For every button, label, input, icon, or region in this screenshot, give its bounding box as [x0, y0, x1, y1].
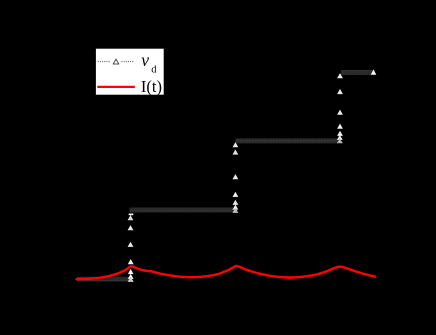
legend nu_d open triangle marker [113, 59, 119, 64]
jump 2 triangle e [233, 200, 239, 205]
jump 3 triangle c [337, 110, 343, 115]
jump 1 triangle b [128, 225, 134, 230]
svg-text:I(t): I(t) [141, 77, 162, 96]
jump 1 triangle a [128, 215, 134, 220]
jump 2 triangle b [233, 149, 239, 154]
jump 2 triangle d [233, 192, 239, 197]
jump 3 triangle e [337, 131, 343, 136]
jump 1 marker dash [129, 214, 134, 216]
jump 1 triangle d [128, 259, 134, 264]
jump 3 triangle a [337, 73, 343, 78]
jump 2 triangle a [233, 142, 239, 147]
svg-text:ν: ν [141, 50, 149, 70]
jump 1 bottom cluster [128, 274, 134, 279]
jump 3 triangle d [337, 124, 343, 129]
jump 2 triangle c [233, 174, 239, 179]
jump 3 triangle b [337, 89, 343, 94]
jump 1 triangle c [128, 242, 134, 247]
jump 2 bottom cluster [233, 204, 239, 209]
legend nu_d dotted line right segment [122, 61, 135, 63]
jump 1 triangle e [128, 269, 134, 274]
svg-text:d: d [151, 65, 157, 76]
jump 3 bottom cluster [337, 135, 343, 140]
legend box [95, 48, 164, 95]
I(t) red curve [77, 266, 376, 279]
nu_d plateau band level 0 [77, 277, 131, 282]
nu_d last point marker [371, 70, 377, 75]
legend nu_d dotted line left segment [98, 61, 111, 63]
nu_d plateau band level 2 [236, 138, 339, 143]
nu_d plateau band level 3 [341, 70, 375, 75]
legend I(t) red line sample [97, 86, 135, 88]
nu_d plateau band level 1 [130, 208, 236, 213]
